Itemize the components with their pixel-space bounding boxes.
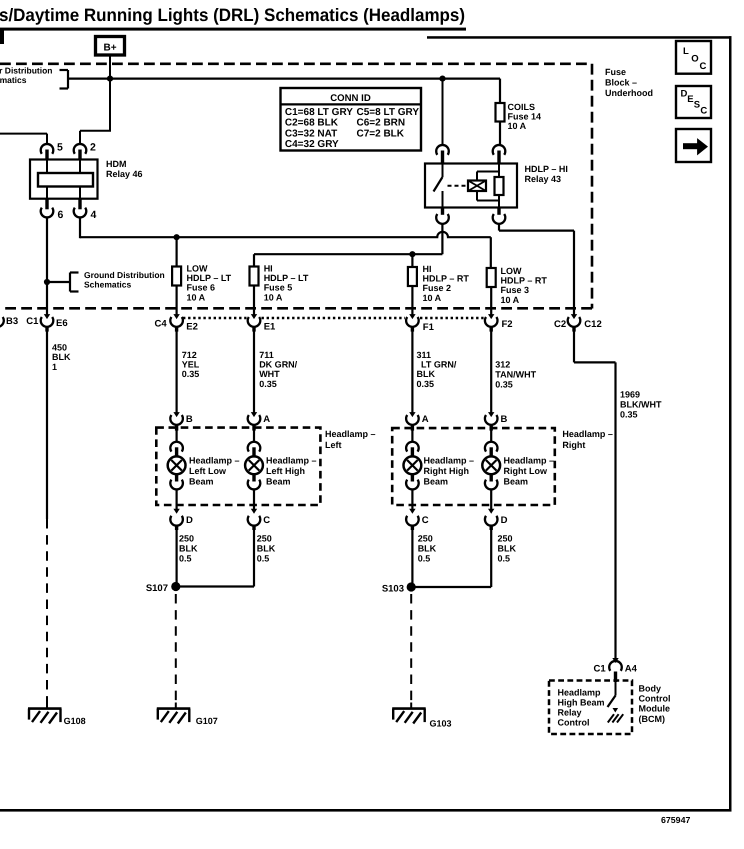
svg-text:311: 311 xyxy=(417,350,432,360)
svg-text:Beam: Beam xyxy=(189,477,214,487)
svg-text:C: C xyxy=(700,106,707,117)
svg-text:B: B xyxy=(501,414,508,425)
svg-text:675947: 675947 xyxy=(661,815,690,825)
svg-text:Relay 43: Relay 43 xyxy=(525,174,562,184)
svg-text:Beam: Beam xyxy=(424,477,449,487)
svg-text:F2: F2 xyxy=(502,319,513,330)
svg-text:10 A: 10 A xyxy=(187,292,206,302)
svg-text:Headlamp –: Headlamp – xyxy=(266,455,317,465)
svg-text:250: 250 xyxy=(418,533,433,543)
svg-text:matics: matics xyxy=(0,75,27,85)
svg-text:250: 250 xyxy=(179,533,194,543)
svg-text:0.5: 0.5 xyxy=(418,554,431,564)
svg-text:Beam: Beam xyxy=(266,477,291,487)
svg-text:LOW: LOW xyxy=(501,266,522,276)
svg-text:Body: Body xyxy=(639,684,662,694)
svg-text:711: 711 xyxy=(259,350,274,360)
svg-text:Headlamp –: Headlamp – xyxy=(504,455,555,465)
svg-text:450: 450 xyxy=(52,343,67,353)
svg-text:E6: E6 xyxy=(56,318,68,329)
svg-text:Headlamp: Headlamp xyxy=(558,687,602,697)
svg-text:0.5: 0.5 xyxy=(498,554,511,564)
svg-text:Headlamp –: Headlamp – xyxy=(562,429,613,439)
svg-text:CONN ID: CONN ID xyxy=(330,93,371,104)
svg-text:L: L xyxy=(683,46,689,57)
svg-text:S: S xyxy=(694,100,700,111)
svg-text:Fuse: Fuse xyxy=(605,67,626,77)
svg-text:Headlamp –: Headlamp – xyxy=(424,455,475,465)
svg-text:B: B xyxy=(186,414,193,425)
svg-text:0.35: 0.35 xyxy=(620,410,638,420)
svg-text:Right High: Right High xyxy=(424,466,470,476)
svg-text:Control: Control xyxy=(558,718,590,728)
svg-text:10 A: 10 A xyxy=(501,295,520,305)
svg-text:0.35: 0.35 xyxy=(182,369,200,379)
svg-text:2: 2 xyxy=(90,142,96,154)
svg-text:BLK: BLK xyxy=(418,544,437,554)
svg-text:1969: 1969 xyxy=(620,389,640,399)
svg-text:0.5: 0.5 xyxy=(179,554,192,564)
svg-text:Fuse 14: Fuse 14 xyxy=(508,112,542,122)
svg-text:F1: F1 xyxy=(423,322,435,333)
svg-text:5: 5 xyxy=(57,142,63,154)
svg-text:C4: C4 xyxy=(155,318,168,329)
svg-text:BLK: BLK xyxy=(52,352,71,362)
svg-text:C1: C1 xyxy=(594,663,607,674)
svg-text:B3: B3 xyxy=(6,316,18,327)
svg-text:HDLP – HI: HDLP – HI xyxy=(525,164,568,174)
svg-text:Block –: Block – xyxy=(605,78,637,88)
svg-text:10 A: 10 A xyxy=(423,293,442,303)
svg-text:Fuse 6: Fuse 6 xyxy=(187,283,216,293)
svg-text:D: D xyxy=(501,515,508,526)
svg-text:6: 6 xyxy=(58,209,64,221)
svg-text:HDLP – RT: HDLP – RT xyxy=(501,276,548,286)
svg-text:0.35: 0.35 xyxy=(259,379,277,389)
svg-text:HI: HI xyxy=(264,264,273,274)
svg-text:E1: E1 xyxy=(264,321,276,332)
svg-text:Fuse 2: Fuse 2 xyxy=(423,283,452,293)
svg-text:TAN/WHT: TAN/WHT xyxy=(495,369,536,379)
svg-text:O: O xyxy=(691,54,698,65)
svg-text:HI: HI xyxy=(423,264,432,274)
svg-text:YEL: YEL xyxy=(182,360,200,370)
svg-text:G108: G108 xyxy=(64,716,86,726)
svg-text:C1=68 LT GRY: C1=68 LT GRY xyxy=(285,107,353,118)
svg-text:C4=32 GRY: C4=32 GRY xyxy=(285,139,339,150)
svg-text:Schematics: Schematics xyxy=(84,280,132,290)
svg-text:WHT: WHT xyxy=(259,369,280,379)
svg-text:C3=32 NAT: C3=32 NAT xyxy=(285,128,337,139)
svg-text:D: D xyxy=(186,515,193,526)
svg-text:Left High: Left High xyxy=(266,466,305,476)
svg-text:S107: S107 xyxy=(146,583,168,594)
svg-text:1: 1 xyxy=(52,362,57,372)
svg-text:0.35: 0.35 xyxy=(417,379,435,389)
svg-text:LT GRN/: LT GRN/ xyxy=(421,360,457,370)
svg-text:312: 312 xyxy=(495,360,510,370)
svg-text:4: 4 xyxy=(91,209,97,221)
svg-text:HDLP – LT: HDLP – LT xyxy=(187,273,232,283)
svg-text:Beam: Beam xyxy=(504,477,529,487)
svg-text:r Distribution: r Distribution xyxy=(0,66,53,76)
svg-text:Right: Right xyxy=(562,440,585,450)
svg-text:C: C xyxy=(422,515,429,526)
svg-text:0.35: 0.35 xyxy=(495,379,513,389)
svg-text:Underhood: Underhood xyxy=(605,88,653,98)
svg-text:C5=8 LT GRY: C5=8 LT GRY xyxy=(357,107,420,118)
svg-text:BLK: BLK xyxy=(179,544,198,554)
svg-text:250: 250 xyxy=(498,533,513,543)
svg-text:C7=2 BLK: C7=2 BLK xyxy=(357,128,405,139)
svg-text:Module: Module xyxy=(639,704,671,714)
svg-text:High Beam: High Beam xyxy=(558,697,605,707)
svg-text:HDM: HDM xyxy=(106,159,127,169)
svg-text:C: C xyxy=(700,61,707,72)
svg-text:B+: B+ xyxy=(103,43,116,54)
svg-text:10 A: 10 A xyxy=(264,292,283,302)
svg-text:BLK: BLK xyxy=(257,544,276,554)
svg-text:A: A xyxy=(422,414,429,425)
svg-text:Control: Control xyxy=(639,694,671,704)
svg-text:DK GRN/: DK GRN/ xyxy=(259,360,297,370)
svg-text:C: C xyxy=(263,515,270,526)
svg-text:C2=68 BLK: C2=68 BLK xyxy=(285,118,339,129)
svg-text:Ground Distribution: Ground Distribution xyxy=(84,270,165,280)
svg-text:S103: S103 xyxy=(382,583,404,594)
svg-text:Headlamp –: Headlamp – xyxy=(189,455,240,465)
svg-text:COILS: COILS xyxy=(508,102,536,112)
svg-text:BLK: BLK xyxy=(498,544,517,554)
svg-text:Fuse 3: Fuse 3 xyxy=(501,285,530,295)
svg-text:s/Daytime Running Lights (DRL): s/Daytime Running Lights (DRL) Schematic… xyxy=(0,5,465,25)
svg-text:G103: G103 xyxy=(430,718,452,728)
svg-text:Left: Left xyxy=(325,440,342,450)
svg-text:E2: E2 xyxy=(186,321,198,332)
svg-text:250: 250 xyxy=(257,533,272,543)
svg-text:Left Low: Left Low xyxy=(189,466,227,476)
svg-text:10 A: 10 A xyxy=(508,121,527,131)
svg-text:Fuse 5: Fuse 5 xyxy=(264,283,293,293)
svg-text:G107: G107 xyxy=(196,716,218,726)
svg-text:A4: A4 xyxy=(625,663,638,674)
svg-text:0.5: 0.5 xyxy=(257,554,270,564)
svg-text:A: A xyxy=(263,414,270,425)
svg-text:Relay: Relay xyxy=(558,708,582,718)
svg-text:LOW: LOW xyxy=(187,264,208,274)
svg-text:Headlamp –: Headlamp – xyxy=(325,429,376,439)
svg-text:(BCM): (BCM) xyxy=(639,714,666,724)
svg-text:BLK: BLK xyxy=(417,369,436,379)
svg-text:HDLP – LT: HDLP – LT xyxy=(264,273,309,283)
svg-text:C6=2 BRN: C6=2 BRN xyxy=(357,118,406,129)
svg-text:712: 712 xyxy=(182,350,197,360)
svg-text:Relay 46: Relay 46 xyxy=(106,169,143,179)
svg-text:BLK/WHT: BLK/WHT xyxy=(620,400,662,410)
svg-text:C2: C2 xyxy=(554,319,566,330)
svg-text:C12: C12 xyxy=(584,319,601,330)
svg-text:Right Low: Right Low xyxy=(504,466,548,476)
svg-text:E: E xyxy=(687,94,693,105)
svg-text:C1: C1 xyxy=(26,316,39,327)
svg-text:HDLP – RT: HDLP – RT xyxy=(423,274,470,284)
